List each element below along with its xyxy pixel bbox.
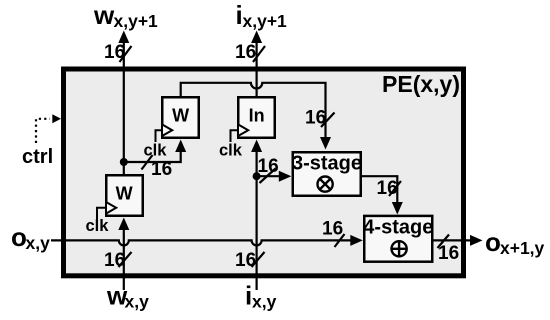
svg-text:16: 16 xyxy=(235,250,256,271)
svg-text:clk: clk xyxy=(144,142,168,160)
svg-text:o: o xyxy=(485,227,501,257)
svg-text:16: 16 xyxy=(258,156,279,177)
svg-text:16: 16 xyxy=(235,42,256,63)
svg-text:x,y+1: x,y+1 xyxy=(114,11,159,31)
svg-text:16: 16 xyxy=(104,250,125,271)
svg-text:16: 16 xyxy=(438,243,459,264)
svg-text:x,y: x,y xyxy=(125,292,150,312)
svg-text:16: 16 xyxy=(104,42,125,63)
svg-text:clk: clk xyxy=(219,142,243,160)
svg-text:16: 16 xyxy=(377,178,398,199)
svg-text:w: w xyxy=(93,0,115,30)
svg-text:x,y: x,y xyxy=(26,233,51,253)
svg-text:4-stage: 4-stage xyxy=(363,217,433,239)
svg-text:ctrl: ctrl xyxy=(22,146,53,168)
svg-text:x+1,y: x+1,y xyxy=(500,238,545,258)
svg-text:o: o xyxy=(11,222,27,252)
svg-text:W: W xyxy=(116,184,133,204)
svg-text:16: 16 xyxy=(322,219,343,240)
svg-text:16: 16 xyxy=(151,159,172,180)
svg-text:16: 16 xyxy=(305,108,326,129)
svg-text:In: In xyxy=(249,106,265,126)
svg-text:PE(x,y): PE(x,y) xyxy=(382,71,460,97)
svg-text:clk: clk xyxy=(86,217,110,235)
svg-text:W: W xyxy=(172,106,189,126)
svg-text:x,y+1: x,y+1 xyxy=(243,11,288,31)
svg-text:x,y: x,y xyxy=(252,292,277,312)
svg-text:3-stage: 3-stage xyxy=(292,153,362,175)
